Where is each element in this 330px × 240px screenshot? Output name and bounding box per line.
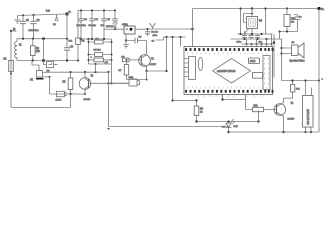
svg-text:T3: T3 bbox=[291, 103, 294, 105]
resistor R8 bbox=[194, 99, 203, 121]
svg-text:C3: C3 bbox=[84, 19, 88, 21]
node dots on base wire bbox=[107, 82, 112, 84]
svg-text:a: a bbox=[322, 79, 324, 81]
wire rail y121 bbox=[197, 121, 259, 123]
oscillator ellipse bbox=[198, 58, 202, 71]
wire gnd return rail y107 bbox=[11, 107, 71, 109]
node B+ bbox=[317, 7, 320, 10]
diode D3 bbox=[44, 61, 58, 73]
microphone P1 bbox=[30, 61, 51, 95]
svg-text:T1: T1 bbox=[151, 59, 154, 61]
svg-text:100n: 100n bbox=[237, 42, 243, 44]
svg-text:C1: C1 bbox=[26, 20, 30, 22]
capacitor C8 bbox=[89, 56, 112, 64]
resistor R7 bbox=[119, 59, 129, 80]
wire speaker feeds bbox=[273, 34, 275, 78]
svg-text:8C557: 8C557 bbox=[150, 64, 157, 66]
header block inside left bbox=[189, 57, 196, 80]
speaker SP1 bbox=[280, 42, 304, 63]
resistor R6 bbox=[122, 56, 142, 61]
svg-text:8C548: 8C548 bbox=[84, 99, 91, 101]
wire drop x172 long bbox=[172, 37, 174, 101]
battery BT1 bbox=[303, 81, 314, 133]
wire rail y80 bbox=[282, 80, 321, 82]
svg-text:+: + bbox=[91, 56, 93, 58]
transistor T1 bbox=[139, 41, 157, 72]
svg-text:10u 16v: 10u 16v bbox=[89, 25, 97, 27]
resistor R11 bbox=[246, 106, 277, 112]
svg-text:R2: R2 bbox=[36, 48, 40, 50]
capacitor C1 bbox=[20, 15, 30, 38]
capacitor C9 bbox=[126, 37, 147, 44]
svg-text:T2: T2 bbox=[91, 76, 94, 78]
crystal module X1 bbox=[105, 24, 148, 34]
capacitor C6 bbox=[64, 14, 74, 61]
svg-text:U3: U3 bbox=[259, 21, 263, 23]
capacitor C7 bbox=[89, 53, 112, 57]
capacitor C13 bbox=[249, 34, 254, 39]
capacitor C12 bbox=[255, 34, 260, 39]
capacitor C4 bbox=[89, 11, 99, 40]
wire top loop bbox=[193, 8, 320, 10]
svg-text:bat: bat bbox=[46, 9, 50, 13]
diode D6 bbox=[244, 29, 250, 35]
wire y31 link bbox=[280, 31, 298, 33]
connector P2 bbox=[56, 91, 67, 101]
svg-text:10k: 10k bbox=[36, 51, 41, 53]
svg-text:P1: P1 bbox=[30, 79, 34, 82]
wire emitter link bbox=[147, 70, 167, 72]
wire top-left battery rail bbox=[18, 14, 68, 16]
svg-text:1u: 1u bbox=[299, 17, 302, 19]
svg-text:C4: C4 bbox=[95, 19, 99, 21]
microcontroller board U2 bbox=[184, 47, 274, 97]
wire rail y38 bbox=[17, 38, 67, 40]
svg-text:win328 I03u8: win328 I03u8 bbox=[217, 69, 236, 73]
resistor R4 bbox=[76, 11, 85, 61]
wire net y28.5 bbox=[148, 28, 193, 30]
svg-text:C9: C9 bbox=[139, 37, 143, 39]
svg-text:B+: B+ bbox=[321, 8, 325, 11]
svg-text:1N4007x4: 1N4007x4 bbox=[29, 30, 40, 32]
resistor R3 bbox=[63, 72, 73, 94]
capacitor rail top bbox=[78, 10, 115, 12]
wire x95 drop bbox=[95, 64, 97, 72]
resistor R10 bbox=[284, 7, 296, 31]
svg-text:IN: IN bbox=[13, 29, 16, 31]
svg-text:1M: 1M bbox=[291, 22, 294, 24]
resistor R1 bbox=[4, 59, 14, 75]
capacitor C14 bbox=[294, 15, 303, 32]
node junction dots on rail A bbox=[22, 12, 69, 16]
svg-text:SW1: SW1 bbox=[129, 77, 135, 79]
transistor T2 bbox=[79, 72, 129, 101]
svg-text:1N4 8la: 1N4 8la bbox=[106, 26, 114, 28]
connector J1 input bbox=[10, 29, 17, 32]
wire risers from IC top right bbox=[247, 44, 272, 47]
resistor R5 bbox=[89, 39, 112, 44]
label box bbox=[249, 58, 260, 64]
wire bus bottom link bbox=[89, 63, 112, 65]
svg-text:1k8: 1k8 bbox=[296, 89, 300, 91]
wire rail y71.5 bbox=[50, 71, 109, 73]
svg-text:R1: R1 bbox=[4, 59, 8, 61]
voltage regulator U3 bbox=[239, 7, 266, 34]
svg-text:DC 3.7V BAT: DC 3.7V BAT bbox=[306, 109, 310, 125]
wire gnd drop x108 bbox=[108, 72, 110, 127]
wire box bottom pin bbox=[125, 34, 127, 41]
svg-text:C5: C5 bbox=[107, 19, 111, 21]
svg-text:C2: C2 bbox=[37, 20, 41, 22]
wire bottom rail y131.5 bbox=[229, 131, 320, 133]
wire drop x166 to emitter line bbox=[166, 37, 168, 71]
svg-text:Speaker 8ohm: Speaker 8ohm bbox=[290, 60, 305, 63]
wire IC bottom left rail bbox=[173, 100, 197, 102]
svg-text:LED: LED bbox=[234, 126, 239, 128]
wire rail y43 bbox=[242, 43, 273, 45]
svg-text:JACK: JACK bbox=[56, 99, 62, 102]
wire gnd rail y126 bbox=[109, 126, 229, 128]
svg-text:R3: R3 bbox=[63, 82, 67, 84]
svg-text:10u: 10u bbox=[259, 42, 263, 44]
wire left bus x88 bbox=[88, 39, 90, 64]
svg-text:8266: 8266 bbox=[250, 60, 256, 63]
svg-text:SP: SP bbox=[292, 42, 295, 44]
capacitor C5 bbox=[101, 11, 111, 40]
jack J2 bbox=[112, 77, 140, 86]
diode D1 bbox=[53, 15, 58, 27]
transistor T3 bbox=[274, 98, 295, 132]
svg-text:4MHz: 4MHz bbox=[122, 24, 128, 26]
svg-text:R7: R7 bbox=[119, 70, 123, 72]
wire right vertical rail bbox=[318, 9, 320, 133]
capacitor C3 bbox=[77, 11, 88, 40]
wire rail y33 top-right bbox=[238, 33, 273, 35]
svg-text:C8 +5v: C8 +5v bbox=[151, 32, 159, 34]
pin pads bottom bbox=[185, 90, 273, 93]
capacitor C2 bbox=[29, 15, 41, 39]
resistor R2 bbox=[31, 39, 41, 61]
ground bbox=[14, 16, 20, 24]
chip diamond bbox=[213, 59, 251, 84]
pin labels below board bbox=[191, 95, 264, 97]
pin pads top bbox=[185, 48, 273, 51]
inductor L1 bbox=[15, 39, 23, 61]
capacitor C10 bbox=[145, 28, 159, 37]
wire net y36.5 bbox=[164, 36, 186, 38]
power flag arrow bbox=[150, 23, 156, 29]
wire rail y38 top-right bbox=[231, 38, 283, 40]
svg-text:470u: 470u bbox=[153, 35, 158, 37]
svg-text:1k: 1k bbox=[200, 112, 203, 114]
svg-text:BC547: BC547 bbox=[288, 119, 295, 121]
svg-text:C6: C6 bbox=[70, 47, 74, 49]
svg-text:5v: 5v bbox=[69, 12, 72, 14]
LED D4 bbox=[222, 119, 238, 132]
wire IC bottom right drops bbox=[223, 95, 246, 100]
wire drop x180 to IC bbox=[180, 37, 182, 47]
wire mic line y93.5 bbox=[50, 93, 86, 95]
pin number marks top bbox=[188, 53, 267, 55]
svg-text:C7 104: C7 104 bbox=[94, 50, 102, 52]
zener D2 chain bbox=[112, 11, 117, 31]
capacitor C11 bbox=[242, 34, 247, 39]
svg-text:D1: D1 bbox=[53, 24, 57, 26]
wire left vertical rail bbox=[10, 31, 12, 108]
pin number marks bottom bbox=[188, 87, 267, 89]
wire rail y60 bbox=[17, 60, 78, 62]
wire right bus x111 bbox=[111, 39, 113, 83]
svg-text:R4: R4 bbox=[82, 41, 86, 43]
resistor R12 bbox=[291, 81, 301, 99]
small block bbox=[253, 73, 263, 79]
wire mid rail y38.5 bbox=[79, 38, 112, 40]
right tall block bbox=[263, 56, 270, 90]
svg-text:104: 104 bbox=[69, 41, 73, 43]
svg-text:a2: a2 bbox=[152, 41, 155, 43]
svg-text:R8: R8 bbox=[200, 109, 204, 111]
ground under crystal bbox=[123, 41, 129, 48]
svg-text:L1: L1 bbox=[19, 45, 22, 47]
wire x43 bbox=[43, 39, 45, 61]
